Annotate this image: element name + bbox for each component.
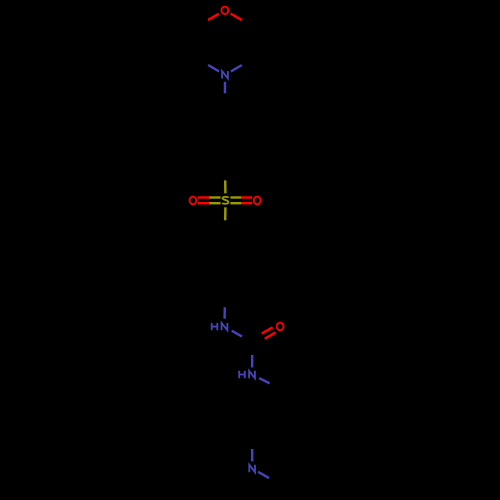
benzene ring2 bond C20-C21 [197,265,199,281]
bond C10-S13 (ring1 to sulfonyl S) [224,168,227,181]
morpholine bond C5-C6 [252,43,254,59]
benzene ring1 bond C11-C12 [197,136,199,152]
pyridine bond C28-C29 [306,436,308,452]
morpholine bond C2-C3 [196,26,198,42]
benzene ring2 bond C19-C20 [212,288,226,296]
benzene ring1 bond C9-C10 [239,152,253,160]
atom label O24 (urea carbonyl oxygen) [277,323,284,331]
benzene ring2 bond C18-C19 [239,280,253,288]
morpholine bond C6-O1 [242,20,253,26]
morpholine bond N4-C5 [231,65,242,71]
benzene ring2 bond C16-C17 [225,234,239,242]
benzene ring1 bond C8-C9 [251,121,253,137]
atom label N4 (morpholine nitrogen) [222,71,228,78]
bond C19-N22 (ring2 to urea NH) [224,296,227,307]
atom label N22 (urea NH, drawn as HN) [212,323,218,330]
atom label N31 (pyridine nitrogen) [249,465,255,473]
bond C26-C27 (CH2 to pyridine ring) [279,389,282,405]
atom label O1 (morpholine oxygen) [221,7,228,15]
atom label S13 (sulfonyl sulfur) [223,197,229,204]
atom label O14 (sulfonyl oxygen left) [189,197,196,205]
bond N4-C7 (morpholine N to benzene ring 1) [224,82,226,94]
pyridine bond C32-C27 [252,428,266,436]
atom label N25 (second urea NH, drawn as HN) [239,371,245,378]
double bond C23=O24 (urea carbonyl) [254,339,265,345]
morpholine bond O1-C2 [208,14,219,20]
bond N25-C26 (NH to methylene CH2) [259,378,270,383]
benzene ring1 bond C10-C11 [211,160,225,168]
pyridine bond C27-C28 [280,420,294,428]
bond S13-C16 (sulfonyl S to benzene ring 2) [224,207,227,220]
bond C23-N25 (carbonyl C to second NH) [251,343,254,356]
benzene ring1 bond C12-C7 [198,113,212,121]
double bond S13=O15 (sulfonyl right) [230,202,241,204]
pyridine bond C30-N31 [269,478,280,484]
pyridine bond C29-C30 [294,468,308,476]
bond N22-C23 (urea NH to carbonyl C) [232,331,242,337]
benzene ring2 bond C21-C16 [198,241,212,249]
atom label O15 (sulfonyl oxygen right) [254,197,261,205]
benzene ring2 bond C17-C18 [251,249,253,265]
pyridine bond N31-C32 [251,449,253,462]
double bond S13=O14 (sulfonyl left) [209,196,220,198]
morpholine bond C3-N4 [197,59,208,65]
benzene ring1 bond C7-C8 [225,105,239,113]
